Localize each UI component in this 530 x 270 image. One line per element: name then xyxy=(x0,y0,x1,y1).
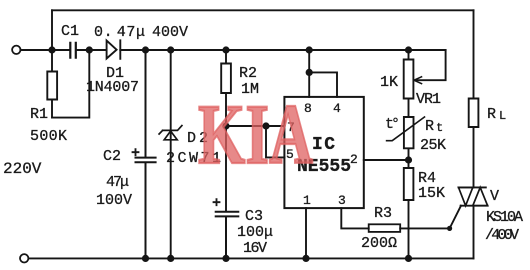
svg-text:200Ω: 200Ω xyxy=(361,235,397,252)
triac V xyxy=(459,187,488,205)
node main-D2 xyxy=(167,46,174,53)
wire D1 to VR1 top xyxy=(120,49,445,51)
svg-text:+: + xyxy=(212,195,221,212)
wiper arrowhead xyxy=(414,77,422,84)
wire pin7 link xyxy=(226,125,284,127)
node rail-D2 xyxy=(167,255,174,262)
node rail-pin1 xyxy=(302,255,309,262)
svg-text:C1: C1 xyxy=(61,23,79,40)
resistor R2 xyxy=(221,50,231,211)
svg-text:R: R xyxy=(487,106,496,123)
svg-text:3: 3 xyxy=(338,193,346,208)
svg-text:500K: 500K xyxy=(30,128,67,145)
wire R1 bottom loop xyxy=(52,50,89,118)
svg-text:25K: 25K xyxy=(420,137,446,154)
wire left riser top xyxy=(51,10,53,50)
node rail-C3 xyxy=(222,255,229,262)
svg-text:15K: 15K xyxy=(418,185,445,202)
svg-text:1N4007: 1N4007 xyxy=(86,79,139,96)
svg-text:R3: R3 xyxy=(374,205,392,222)
capacitor C3 xyxy=(216,212,239,259)
wire bottom rail xyxy=(29,257,474,259)
node Rt-R4-pin2 xyxy=(405,156,412,163)
wire main rail left xyxy=(20,49,69,51)
wire pin1 drop xyxy=(305,208,307,258)
svg-text:0. 47μ: 0. 47μ xyxy=(94,24,145,41)
svg-text:t: t xyxy=(436,121,443,135)
terminal top-left xyxy=(12,46,20,54)
node main-R2 xyxy=(222,46,229,53)
node pin7-pin5 xyxy=(262,122,269,129)
svg-text:16V: 16V xyxy=(243,240,267,257)
node R2-pin7 xyxy=(222,122,229,129)
node pin8-pin4 xyxy=(306,69,313,76)
svg-text:100μ: 100μ xyxy=(237,224,273,241)
svg-text:R1: R1 xyxy=(30,106,48,123)
resistor R1 xyxy=(47,50,57,118)
wire VR1 wiper loop xyxy=(417,50,446,80)
capacitor C1 xyxy=(70,43,76,58)
svg-text:V: V xyxy=(490,188,499,205)
zener diode D2 xyxy=(170,50,172,258)
wire pin5 link xyxy=(266,126,284,157)
svg-text:2: 2 xyxy=(350,152,358,167)
svg-text:R: R xyxy=(425,118,434,135)
node main-C1R1 xyxy=(48,46,55,53)
wire pin8 drop xyxy=(308,50,310,97)
wire C1 to D1 xyxy=(77,49,106,51)
svg-text:4: 4 xyxy=(333,101,341,116)
svg-text:220V: 220V xyxy=(3,160,42,178)
wire top rail xyxy=(52,9,474,11)
svg-text:KIA: KIA xyxy=(198,86,313,182)
wire pin2 link xyxy=(364,159,409,161)
node rail-C2 xyxy=(142,255,149,262)
thermistor diagonal xyxy=(387,117,425,141)
svg-text:R2: R2 xyxy=(239,65,257,82)
thermistor Rt xyxy=(404,117,414,160)
svg-text:+: + xyxy=(131,145,140,162)
svg-text:400V: 400V xyxy=(152,24,188,41)
svg-text:t°: t° xyxy=(385,116,400,133)
potentiometer VR1 xyxy=(404,50,414,117)
svg-text:1: 1 xyxy=(303,193,311,208)
svg-text:VR1: VR1 xyxy=(416,91,441,108)
wire pin3 to R3 xyxy=(341,208,368,228)
svg-text:47μ: 47μ xyxy=(106,174,129,191)
svg-text:100V: 100V xyxy=(96,192,132,209)
svg-text:L: L xyxy=(499,109,506,123)
IC U1 box NE555 xyxy=(284,97,363,208)
resistor R4 xyxy=(404,160,414,258)
wire triac to bottom xyxy=(473,206,475,259)
node main-VR1 xyxy=(405,46,412,53)
svg-text:KS10A: KS10A xyxy=(486,209,523,226)
wire pin4 jog xyxy=(309,72,337,97)
capacitor C2 xyxy=(136,50,156,258)
svg-text:1K: 1K xyxy=(380,74,398,91)
node gate corner xyxy=(447,226,452,231)
svg-text:C3: C3 xyxy=(245,208,263,225)
diode D1 xyxy=(107,40,121,59)
resistor R3 xyxy=(369,224,401,232)
terminal bottom-left xyxy=(20,254,28,262)
node main-C2 xyxy=(142,46,149,53)
node C1-D1 xyxy=(86,46,93,53)
load resistor RL xyxy=(469,10,479,187)
svg-text:C2: C2 xyxy=(103,148,121,165)
svg-text:IC: IC xyxy=(312,135,335,155)
svg-text:/400V: /400V xyxy=(485,227,519,244)
node rail-R4 xyxy=(405,255,412,262)
node main-pin8 xyxy=(306,46,313,53)
wire R3 to gate xyxy=(400,227,449,229)
wire gate diagonal xyxy=(450,206,461,229)
